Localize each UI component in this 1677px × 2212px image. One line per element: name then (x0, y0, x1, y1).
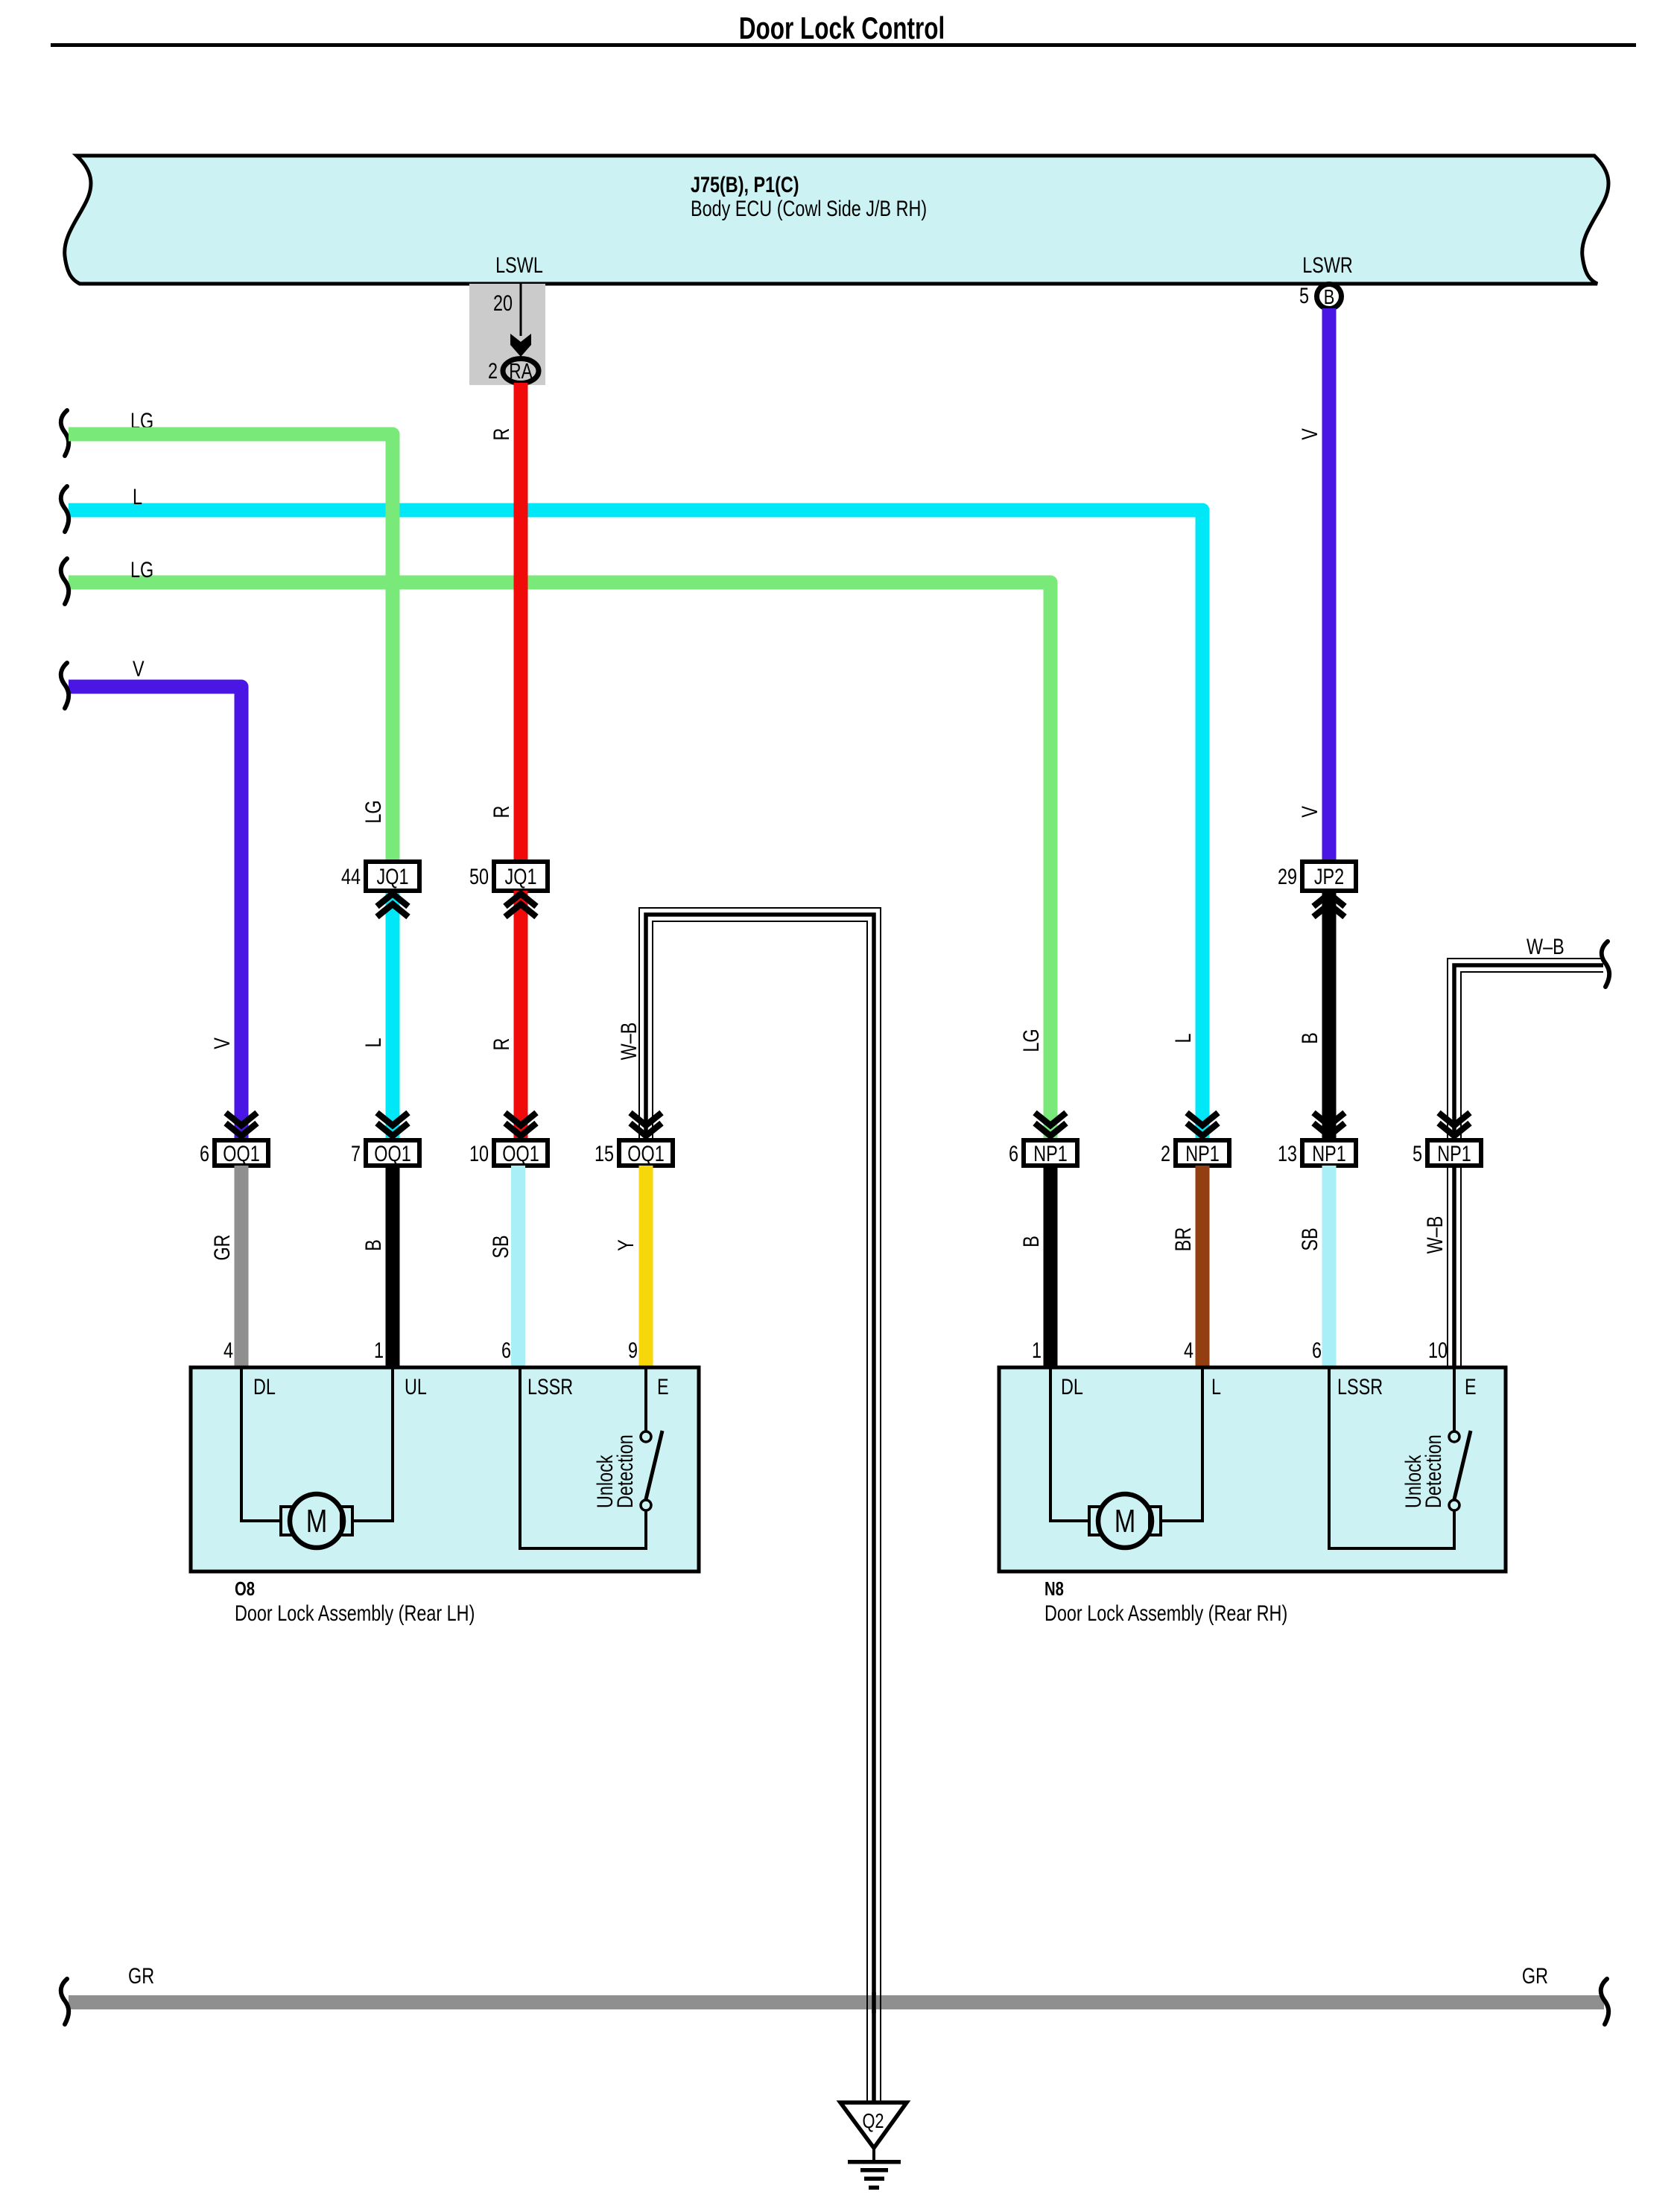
svg-text:M: M (1115, 1503, 1136, 1539)
svg-text:B: B (1018, 1236, 1043, 1248)
svg-text:5: 5 (1413, 1141, 1422, 1166)
svg-text:L: L (1211, 1374, 1221, 1399)
chevron down above NP1-6 (1035, 1113, 1066, 1136)
svg-text:50: 50 (469, 864, 489, 889)
svg-text:Door Lock Control: Door Lock Control (739, 10, 945, 46)
svg-text:B: B (361, 1239, 385, 1251)
pin circle B (LSWR) (1317, 285, 1342, 309)
svg-text:B: B (1297, 1032, 1322, 1044)
svg-text:JQ1: JQ1 (377, 864, 409, 889)
connector 2 NP1 (1176, 1140, 1229, 1166)
svg-text:V: V (209, 1037, 234, 1049)
svg-text:UL: UL (405, 1374, 427, 1399)
connector 7 OQ1 (366, 1140, 419, 1166)
O8 switch bottom contact (641, 1500, 651, 1510)
ground Q2 triangle (840, 2103, 907, 2148)
break squiggle GR left (61, 1979, 69, 2024)
svg-text:Detection: Detection (1421, 1434, 1445, 1508)
wire W-B right from break to NP1-5 (outer thin) (1448, 959, 1603, 1140)
svg-text:LSSR: LSSR (527, 1374, 573, 1399)
N8 L internal wire (1161, 1367, 1202, 1521)
wire V from B circle down to JP2-29 (1322, 308, 1337, 864)
svg-text:LSWR: LSWR (1302, 252, 1353, 277)
wire W-B stub NP1-5 to N8 (1448, 1166, 1461, 1367)
svg-text:LG: LG (130, 557, 153, 582)
svg-text:SB: SB (488, 1235, 513, 1258)
svg-text:GR: GR (128, 1963, 154, 1988)
break squiggle L (61, 486, 69, 532)
svg-text:W–B: W–B (1527, 934, 1565, 959)
svg-text:10: 10 (469, 1141, 489, 1166)
svg-text:NP1: NP1 (1033, 1141, 1068, 1166)
break squiggle LG1 (61, 410, 69, 456)
connector 6 OQ1 (215, 1140, 268, 1166)
svg-text:Detection: Detection (612, 1434, 637, 1508)
Body ECU band J75(B),P1(C) (65, 156, 1608, 284)
ground stem (872, 2148, 875, 2160)
chevron down above NP1-13 (1313, 1113, 1345, 1136)
svg-text:OQ1: OQ1 (374, 1141, 410, 1166)
svg-text:DL: DL (253, 1374, 276, 1399)
svg-text:6: 6 (501, 1338, 511, 1362)
svg-text:L: L (1170, 1033, 1195, 1043)
connector 5 NP1 (1427, 1140, 1481, 1166)
arrowhead into RA (510, 334, 531, 357)
O8 switch lever (646, 1431, 662, 1499)
svg-text:R: R (489, 1038, 513, 1051)
svg-text:20: 20 (493, 290, 513, 315)
svg-text:E: E (1465, 1374, 1477, 1399)
svg-text:6: 6 (200, 1141, 209, 1166)
splice RA (503, 359, 539, 384)
svg-text:NP1: NP1 (1185, 1141, 1220, 1166)
svg-text:N8: N8 (1044, 1578, 1064, 1600)
wire BR stub NP1-2 to N8 (1196, 1166, 1210, 1367)
wire B stub OQ1-7 to O8 (386, 1166, 400, 1367)
N8 motor right brush (1150, 1507, 1161, 1535)
chevron down above OQ1-10 (505, 1113, 536, 1136)
chevron up below JP2-29 (1313, 894, 1345, 917)
wire Y stub OQ1-15 to O8 (639, 1166, 653, 1367)
N8 switch lever (1454, 1431, 1471, 1499)
svg-text:Q2: Q2 (862, 2109, 884, 2132)
break squiggle W-B right (1602, 941, 1609, 987)
chevron down above NP1-5 (1439, 1113, 1470, 1136)
chevron up below JQ1-44 (377, 894, 408, 917)
connector 50 JQ1 (494, 862, 548, 891)
wire W-B inner thin (653, 921, 867, 2103)
wire SB stub OQ1-10 to O8 (511, 1166, 525, 1367)
wire L horizontal then down to NP1-2 (69, 510, 1202, 1140)
W-B lines over GR bus (redraw on top) (867, 1992, 881, 2013)
wire SB stub NP1-13 to N8 (1322, 1166, 1337, 1367)
wire GR bottom bus (69, 1995, 1604, 2009)
svg-text:LG: LG (1018, 1029, 1043, 1052)
svg-text:DL: DL (1061, 1374, 1083, 1399)
svg-text:SB: SB (1297, 1227, 1322, 1250)
O8 E line (644, 1367, 647, 1431)
svg-text:J75(B), P1(C): J75(B), P1(C) (691, 172, 799, 197)
break squiggle V (61, 663, 69, 708)
svg-text:6: 6 (1312, 1338, 1322, 1362)
svg-text:E: E (657, 1374, 669, 1399)
N8 motor left brush (1089, 1507, 1100, 1535)
svg-text:LG: LG (361, 800, 385, 823)
O8 motor right brush (341, 1507, 352, 1535)
svg-text:RA: RA (509, 358, 533, 383)
connector 13 NP1 (1302, 1140, 1356, 1166)
wire V horizontal then down to OQ1-6 (69, 687, 241, 1140)
wire W-B from OQ1-15 up and over to ground (outer thin) (639, 908, 881, 2103)
svg-text:13: 13 (1278, 1141, 1297, 1166)
wire GR stub OQ1-6 to O8 (235, 1166, 249, 1367)
svg-text:OQ1: OQ1 (223, 1141, 259, 1166)
wire B stub NP1-6 to N8 (1044, 1166, 1058, 1367)
svg-text:Door Lock Assembly (Rear LH): Door Lock Assembly (Rear LH) (235, 1601, 475, 1625)
svg-text:4: 4 (1184, 1338, 1193, 1362)
svg-text:10: 10 (1428, 1338, 1448, 1362)
svg-text:2: 2 (488, 358, 498, 383)
break squiggle GR right (1601, 1979, 1608, 2024)
wire LG2 horizontal then down to NP1-6 (69, 582, 1050, 1140)
svg-text:L: L (361, 1037, 385, 1047)
ground bar 4 (869, 2186, 879, 2190)
svg-text:V: V (1297, 806, 1322, 818)
svg-text:Body ECU (Cowl Side J/B RH): Body ECU (Cowl Side J/B RH) (691, 196, 927, 220)
O8 DL internal wire (241, 1367, 281, 1521)
N8 switch bottom contact (1449, 1500, 1459, 1510)
connector 10 OQ1 (494, 1140, 548, 1166)
svg-text:BR: BR (1170, 1227, 1195, 1251)
svg-text:44: 44 (341, 864, 361, 889)
svg-text:JQ1: JQ1 (505, 864, 537, 889)
wire R from RA down to JQ1-50 (514, 383, 528, 864)
svg-text:V: V (133, 656, 145, 681)
wire B JP2-29 to NP1-13 (1322, 891, 1337, 1140)
svg-text:4: 4 (224, 1338, 233, 1362)
connector 15 OQ1 (619, 1140, 673, 1166)
svg-text:LSWL: LSWL (495, 252, 543, 277)
O8 LSSR compartment (520, 1367, 646, 1548)
svg-text:R: R (489, 806, 513, 819)
wire pin20 to RA (520, 284, 522, 336)
svg-text:NP1: NP1 (1437, 1141, 1471, 1166)
svg-text:V: V (1297, 428, 1322, 440)
connector 6 NP1 (1024, 1140, 1077, 1166)
ground bar 1 (848, 2160, 901, 2164)
chevron up below JQ1-50 (505, 894, 536, 917)
connector 29 JP2 (1302, 862, 1356, 891)
svg-text:1: 1 (374, 1338, 384, 1362)
svg-text:Y: Y (613, 1239, 638, 1251)
svg-text:GR: GR (209, 1234, 234, 1260)
chevron down above NP1-2 (1187, 1113, 1218, 1136)
svg-text:2: 2 (1161, 1141, 1170, 1166)
svg-text:L: L (133, 484, 142, 509)
wire W-B thick center (646, 915, 874, 2103)
gray shade box at pin 20 (469, 284, 545, 385)
chevron down above OQ1-15 (630, 1113, 662, 1136)
wire R JQ1-50 to OQ1-10 (514, 891, 528, 1140)
svg-text:NP1: NP1 (1312, 1141, 1346, 1166)
break squiggle LG2 (61, 559, 69, 604)
wire LG left-top horizontal then down to JQ1-44 (69, 434, 393, 864)
svg-text:LSSR: LSSR (1337, 1374, 1383, 1399)
O8 motor left brush (281, 1507, 292, 1535)
O8 motor M (290, 1494, 343, 1548)
O8 Door Lock Assembly box (191, 1367, 699, 1571)
svg-text:OQ1: OQ1 (502, 1141, 539, 1166)
O8 UL internal wire (352, 1367, 393, 1521)
svg-text:7: 7 (351, 1141, 361, 1166)
ground bar 3 (864, 2177, 884, 2181)
N8 DL internal wire (1050, 1367, 1089, 1521)
svg-text:29: 29 (1278, 864, 1297, 889)
svg-text:JP2: JP2 (1314, 864, 1344, 889)
svg-text:OQ1: OQ1 (627, 1141, 664, 1166)
ground bar 2 (860, 2168, 888, 2173)
svg-text:6: 6 (1009, 1141, 1018, 1166)
svg-text:M: M (306, 1503, 328, 1539)
svg-text:5: 5 (1299, 283, 1309, 308)
wire L JQ1-44 to OQ1-7 (386, 891, 400, 1140)
svg-text:15: 15 (595, 1141, 614, 1166)
N8 motor M (1098, 1494, 1152, 1548)
svg-text:9: 9 (628, 1338, 638, 1362)
N8 switch top contact (1449, 1431, 1459, 1442)
title underline (51, 43, 1636, 47)
chevron down above OQ1-6 (226, 1113, 257, 1136)
O8 switch top contact (641, 1431, 651, 1442)
svg-text:O8: O8 (235, 1578, 255, 1600)
svg-text:GR: GR (1522, 1963, 1548, 1988)
svg-text:W–B: W–B (616, 1023, 641, 1061)
N8 E line (1453, 1367, 1456, 1431)
connector 44 JQ1 (366, 862, 419, 891)
svg-text:W–B: W–B (1422, 1216, 1447, 1254)
svg-text:B: B (1324, 285, 1335, 308)
N8 Door Lock Assembly box (999, 1367, 1506, 1571)
svg-text:1: 1 (1032, 1338, 1042, 1362)
N8 LSSR compartment (1329, 1367, 1454, 1548)
wire W-B right thick (1454, 965, 1603, 1140)
wire W-B right inner thin (1461, 972, 1603, 1140)
svg-text:R: R (489, 428, 513, 441)
chevron down above OQ1-7 (377, 1113, 408, 1136)
svg-text:Door Lock Assembly (Rear RH): Door Lock Assembly (Rear RH) (1044, 1601, 1287, 1625)
